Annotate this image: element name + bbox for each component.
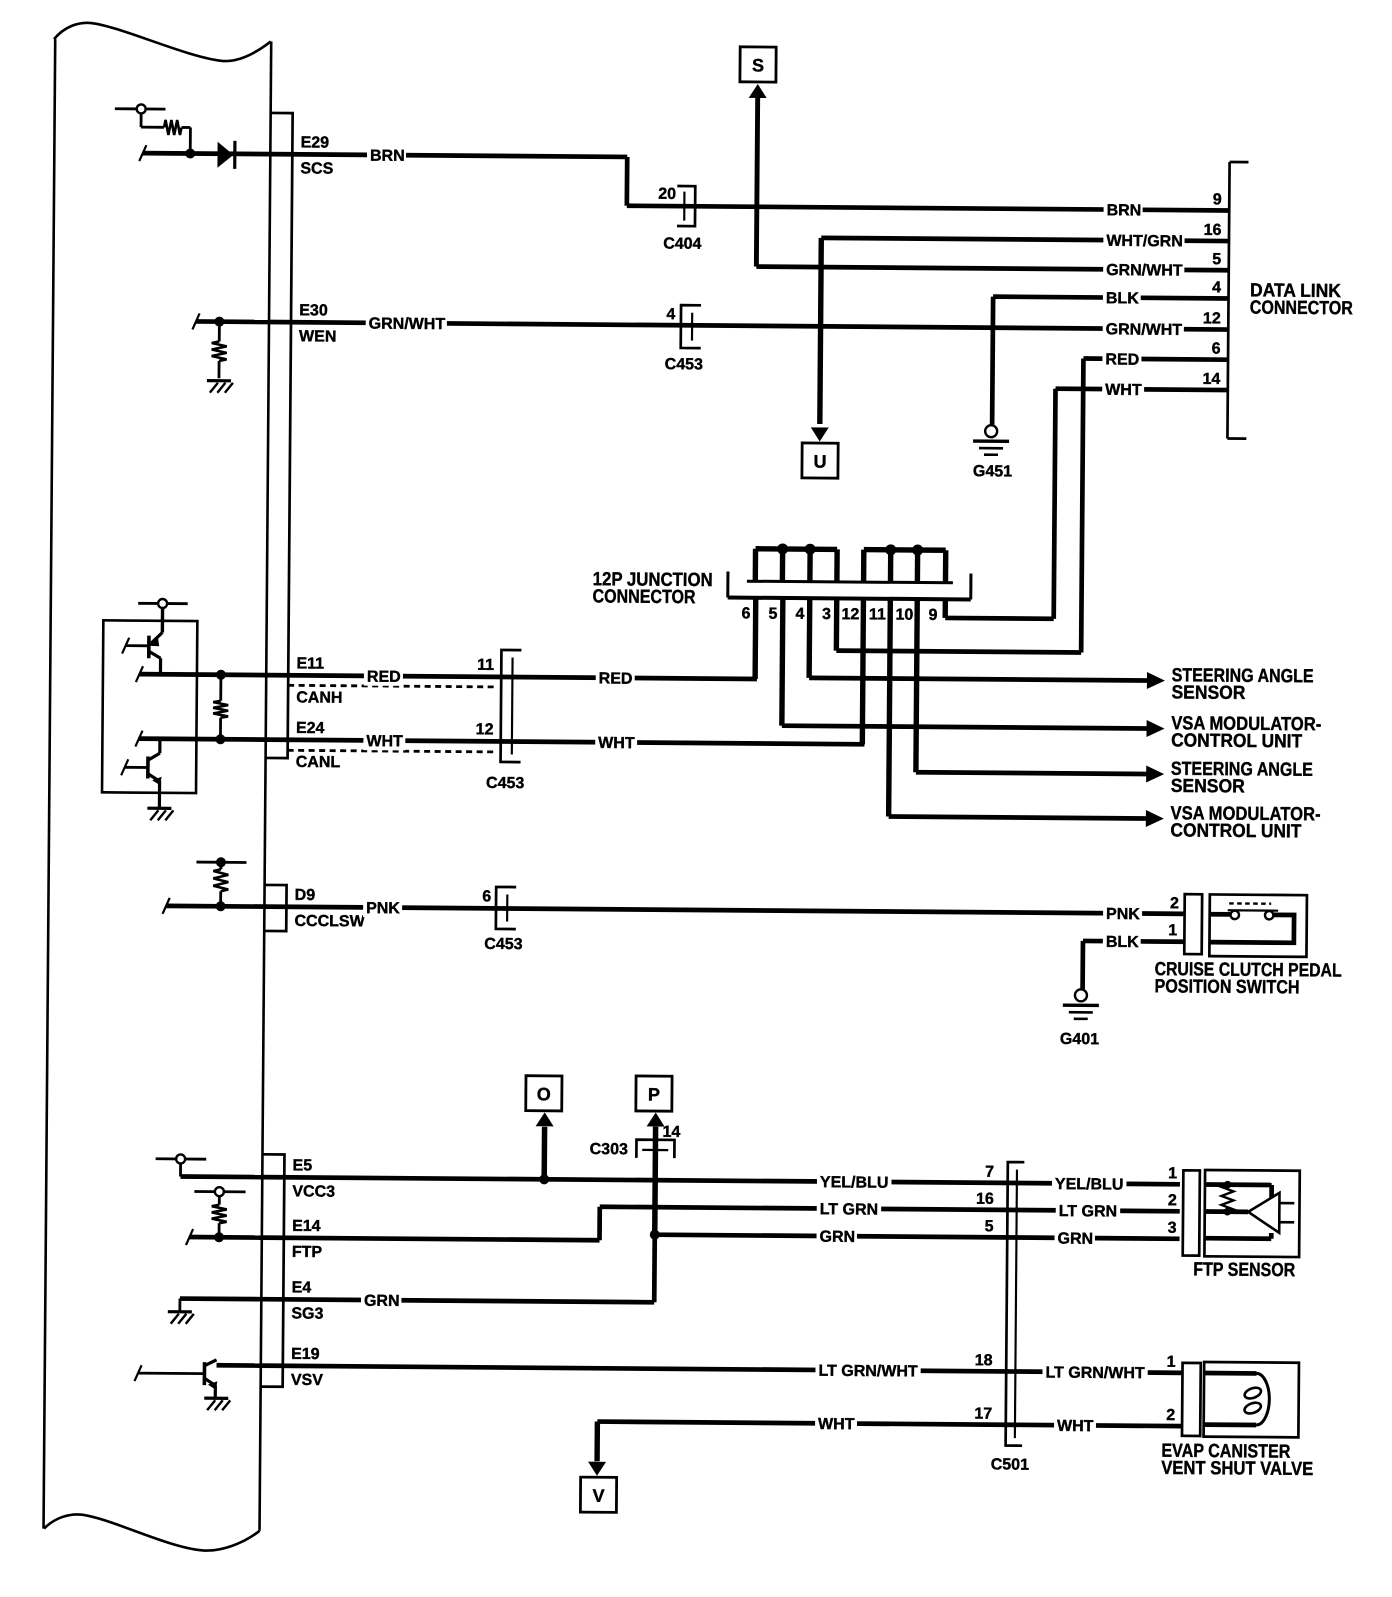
svg-text:E11: E11 bbox=[296, 655, 324, 672]
svg-text:E5: E5 bbox=[293, 1157, 313, 1174]
svg-text:YEL/BLU: YEL/BLU bbox=[820, 1174, 889, 1192]
svg-text:5: 5 bbox=[768, 606, 777, 623]
svg-text:GRN: GRN bbox=[819, 1229, 855, 1246]
svg-text:6: 6 bbox=[1212, 341, 1221, 358]
svg-text:GRN: GRN bbox=[364, 1293, 400, 1310]
svg-text:S: S bbox=[752, 55, 764, 75]
svg-text:WHT: WHT bbox=[818, 1416, 855, 1433]
svg-text:12: 12 bbox=[1203, 310, 1221, 327]
svg-text:CONTROL UNIT: CONTROL UNIT bbox=[1170, 820, 1302, 842]
svg-text:12: 12 bbox=[841, 606, 859, 623]
svg-text:BLK: BLK bbox=[1106, 934, 1139, 951]
svg-text:BLK: BLK bbox=[1106, 290, 1139, 307]
svg-text:10: 10 bbox=[895, 607, 913, 624]
svg-text:O: O bbox=[537, 1084, 551, 1104]
svg-text:1: 1 bbox=[1168, 1165, 1177, 1182]
svg-text:GRN: GRN bbox=[1057, 1231, 1093, 1248]
svg-text:1: 1 bbox=[1167, 1354, 1176, 1371]
svg-text:SG3: SG3 bbox=[291, 1305, 323, 1322]
svg-text:POSITION SWITCH: POSITION SWITCH bbox=[1154, 976, 1299, 998]
svg-text:WEN: WEN bbox=[299, 328, 336, 345]
svg-text:E4: E4 bbox=[292, 1279, 312, 1296]
svg-text:E29: E29 bbox=[301, 134, 330, 151]
svg-text:11: 11 bbox=[869, 606, 886, 623]
svg-text:1: 1 bbox=[1168, 922, 1177, 939]
svg-text:CONTROL UNIT: CONTROL UNIT bbox=[1171, 730, 1303, 752]
svg-text:9: 9 bbox=[1213, 191, 1222, 208]
svg-text:GRN/WHT: GRN/WHT bbox=[369, 316, 446, 334]
svg-text:SENSOR: SENSOR bbox=[1171, 776, 1245, 798]
svg-text:FTP: FTP bbox=[292, 1244, 323, 1261]
svg-text:PNK: PNK bbox=[1106, 906, 1140, 923]
svg-text:LT GRN/WHT: LT GRN/WHT bbox=[1045, 1364, 1145, 1382]
svg-text:C501: C501 bbox=[991, 1456, 1029, 1473]
svg-text:FTP SENSOR: FTP SENSOR bbox=[1193, 1259, 1295, 1281]
svg-text:CONNECTOR: CONNECTOR bbox=[1250, 298, 1353, 320]
svg-text:WHT: WHT bbox=[598, 735, 635, 752]
svg-text:2: 2 bbox=[1170, 895, 1179, 912]
svg-text:2: 2 bbox=[1168, 1192, 1177, 1209]
svg-text:RED: RED bbox=[599, 670, 633, 687]
svg-text:6: 6 bbox=[482, 888, 491, 905]
svg-text:WHT: WHT bbox=[366, 733, 403, 750]
svg-text:6: 6 bbox=[741, 605, 750, 622]
svg-text:WHT: WHT bbox=[1105, 382, 1142, 399]
svg-text:GRN/WHT: GRN/WHT bbox=[1106, 321, 1183, 339]
svg-text:RED: RED bbox=[1105, 351, 1139, 368]
svg-text:4: 4 bbox=[795, 606, 804, 623]
svg-text:2: 2 bbox=[1166, 1407, 1175, 1424]
svg-text:C453: C453 bbox=[486, 775, 524, 792]
svg-text:C453: C453 bbox=[484, 936, 522, 953]
svg-text:BRN: BRN bbox=[1107, 202, 1142, 219]
svg-text:5: 5 bbox=[985, 1218, 994, 1235]
svg-text:YEL/BLU: YEL/BLU bbox=[1055, 1176, 1124, 1194]
svg-text:E30: E30 bbox=[299, 302, 328, 319]
svg-text:17: 17 bbox=[974, 1406, 992, 1423]
svg-text:WHT: WHT bbox=[1057, 1418, 1094, 1435]
svg-text:9: 9 bbox=[928, 607, 937, 624]
svg-text:C404: C404 bbox=[663, 236, 701, 253]
svg-text:V: V bbox=[592, 1486, 604, 1506]
svg-text:LT GRN/WHT: LT GRN/WHT bbox=[818, 1363, 918, 1381]
svg-text:WHT/GRN: WHT/GRN bbox=[1106, 233, 1183, 251]
svg-text:3: 3 bbox=[1168, 1220, 1177, 1237]
svg-text:CANL: CANL bbox=[296, 754, 341, 771]
svg-text:3: 3 bbox=[822, 606, 831, 623]
svg-text:VCC3: VCC3 bbox=[292, 1183, 335, 1200]
svg-text:U: U bbox=[813, 452, 826, 472]
svg-text:C453: C453 bbox=[665, 356, 703, 373]
svg-text:14: 14 bbox=[1202, 371, 1220, 388]
svg-text:5: 5 bbox=[1212, 251, 1221, 268]
svg-text:RED: RED bbox=[367, 669, 401, 686]
svg-text:VENT SHUT VALVE: VENT SHUT VALVE bbox=[1161, 1458, 1313, 1480]
svg-text:12: 12 bbox=[476, 721, 494, 738]
svg-text:16: 16 bbox=[976, 1191, 994, 1208]
svg-text:E19: E19 bbox=[291, 1346, 320, 1363]
svg-text:SCS: SCS bbox=[300, 160, 333, 177]
svg-text:20: 20 bbox=[658, 186, 676, 203]
svg-text:SENSOR: SENSOR bbox=[1171, 682, 1245, 704]
svg-text:D9: D9 bbox=[295, 887, 316, 904]
svg-text:PNK: PNK bbox=[366, 900, 400, 917]
svg-text:E14: E14 bbox=[292, 1218, 321, 1235]
svg-text:VSV: VSV bbox=[291, 1372, 323, 1389]
svg-text:G451: G451 bbox=[973, 463, 1012, 480]
svg-text:CCCLSW: CCCLSW bbox=[294, 913, 365, 931]
svg-text:LT GRN: LT GRN bbox=[820, 1201, 878, 1218]
svg-text:16: 16 bbox=[1204, 222, 1222, 239]
svg-text:GRN/WHT: GRN/WHT bbox=[1106, 262, 1183, 280]
svg-text:P: P bbox=[648, 1085, 660, 1105]
svg-text:4: 4 bbox=[666, 306, 675, 323]
svg-text:G401: G401 bbox=[1060, 1031, 1099, 1048]
svg-text:CANH: CANH bbox=[296, 689, 342, 706]
svg-text:CONNECTOR: CONNECTOR bbox=[592, 586, 695, 608]
svg-text:11: 11 bbox=[477, 657, 494, 674]
svg-text:18: 18 bbox=[975, 1352, 993, 1369]
svg-text:E24: E24 bbox=[296, 720, 325, 737]
svg-text:7: 7 bbox=[985, 1164, 994, 1181]
svg-text:4: 4 bbox=[1212, 279, 1221, 296]
svg-text:LT GRN: LT GRN bbox=[1059, 1203, 1117, 1220]
svg-text:C303: C303 bbox=[590, 1141, 628, 1158]
svg-text:14: 14 bbox=[662, 1124, 680, 1141]
svg-text:BRN: BRN bbox=[370, 148, 405, 165]
